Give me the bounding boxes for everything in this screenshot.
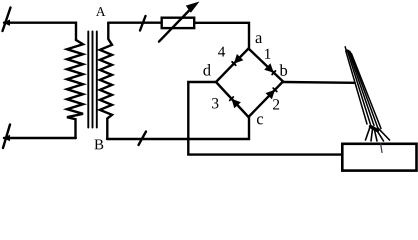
node d label xyxy=(203,64,210,76)
brush lead inside box xyxy=(381,143,383,153)
label 1 xyxy=(265,49,270,59)
bridge side c-d xyxy=(216,82,249,117)
label 2 xyxy=(273,99,279,109)
brush bundle strokes xyxy=(346,50,381,129)
brush toes xyxy=(366,127,390,141)
wire secondary top to rheostat xyxy=(108,22,161,24)
bridge side d-a xyxy=(216,49,249,83)
connection tick on bottom wire xyxy=(139,132,147,146)
wire d to load box xyxy=(188,82,342,155)
node a label xyxy=(256,35,263,43)
diode D1 arrow (points to b) xyxy=(264,63,274,72)
label 4 xyxy=(218,47,225,57)
AC terminal bottom-left slash xyxy=(3,125,10,149)
wire top-left horizontal xyxy=(4,23,76,40)
rheostat arrowhead xyxy=(186,2,200,13)
brush top hook xyxy=(345,47,346,52)
connection tick on top wire xyxy=(140,16,146,31)
diode D1 cathode bar xyxy=(272,71,275,75)
node c label xyxy=(257,116,263,124)
diode D4 cathode bar xyxy=(232,62,236,66)
bridge side a-b xyxy=(249,49,284,82)
AC terminal top-left contact arrowhead xyxy=(3,20,10,26)
wire bottom-left horizontal xyxy=(4,137,76,139)
wire rheostat to bridge top xyxy=(194,23,249,49)
brush knot xyxy=(371,127,378,131)
wire b to brush xyxy=(283,81,355,84)
label 3 xyxy=(212,98,218,108)
node B label xyxy=(94,139,103,149)
transformer secondary winding xyxy=(100,23,112,139)
diode D2 arrow (points to b) xyxy=(266,90,276,100)
transformer core xyxy=(88,32,97,128)
wire c down to B rail xyxy=(107,117,249,139)
node b label xyxy=(280,64,288,76)
rheostat R body xyxy=(162,18,195,28)
rheostat arrow xyxy=(159,7,193,42)
diode D3 cathode bar xyxy=(230,97,234,100)
diode D4 arrow (points to d) xyxy=(234,54,244,64)
diode D2 cathode bar xyxy=(273,88,277,91)
node A label xyxy=(96,7,106,16)
bridge side b-c xyxy=(249,82,284,118)
AC terminal bottom-left contact arrowhead xyxy=(3,135,10,141)
AC terminal top-left slash xyxy=(3,8,11,32)
load box xyxy=(342,144,416,171)
diode D3 arrow (points to d) xyxy=(232,99,241,109)
transformer primary winding xyxy=(67,40,83,138)
